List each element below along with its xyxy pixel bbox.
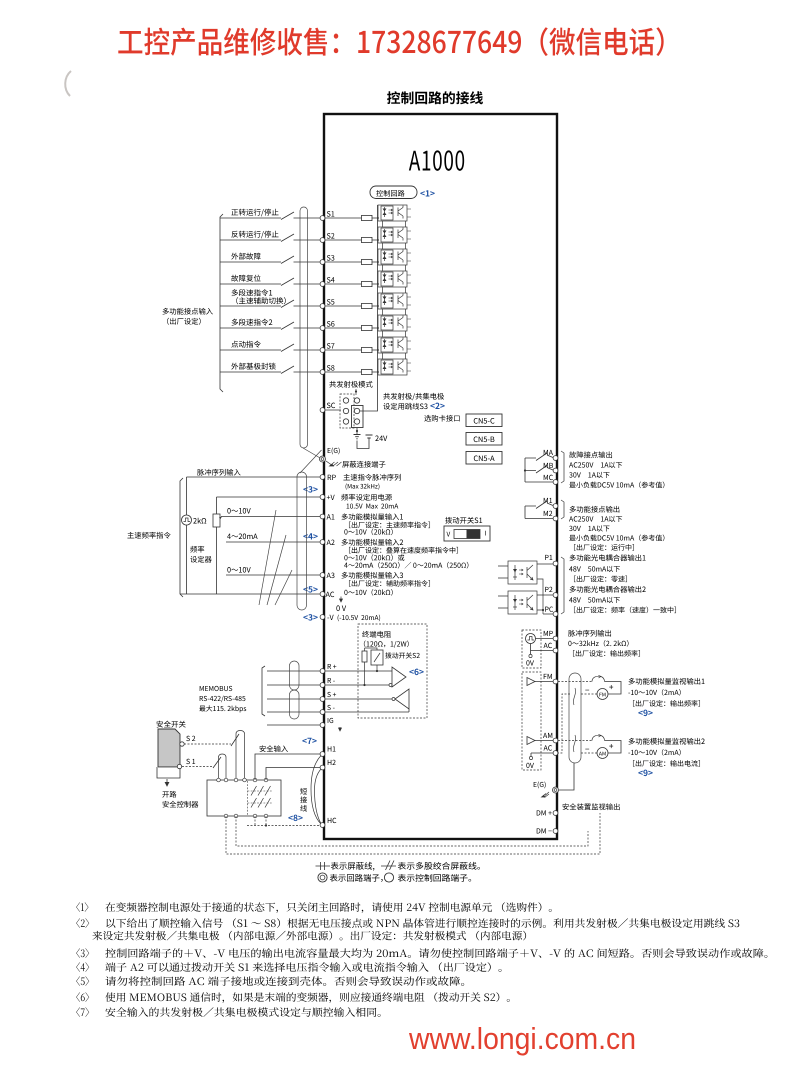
AM meter circuit	[558, 740, 592, 742]
terminal S2	[320, 238, 325, 243]
label 频率设定用电源	[341, 494, 392, 501]
earth ground under jumper	[354, 435, 361, 439]
relay box pins top	[217, 778, 221, 782]
label 设定器	[190, 556, 211, 563]
chassis ground symbol E(G) left	[326, 461, 342, 466]
terminal M1	[553, 504, 558, 509]
safety contact S2 pin	[180, 742, 184, 746]
label 多段速指令1	[232, 289, 273, 296]
switch contact S2	[281, 234, 294, 242]
terminal P1	[553, 561, 558, 566]
wire IG	[267, 724, 320, 726]
wire S1 dashed	[182, 766, 213, 768]
label (Max 32kHz)	[346, 483, 380, 489]
terminal label S3	[327, 255, 335, 260]
slide switch S1 box	[444, 526, 490, 541]
minus AM	[585, 748, 589, 751]
terminal label S2	[327, 233, 335, 238]
switch contact S7	[281, 344, 294, 352]
leader 共发射极模式 to jumper	[355, 389, 357, 395]
switch label V	[447, 532, 451, 537]
legend text 2a	[330, 874, 383, 882]
terminal E(G) left	[320, 456, 326, 462]
label 选购卡接口	[424, 415, 459, 422]
wire AC monitor	[531, 753, 553, 757]
switch contact S4	[281, 278, 294, 286]
meter label AM	[599, 752, 606, 756]
label （出厂设定）	[167, 318, 201, 325]
terminal S4	[320, 282, 325, 287]
optocoupler S3	[377, 249, 411, 271]
terminal label S -	[327, 705, 334, 710]
label （主速辅助切换）	[236, 297, 286, 304]
terminal label DM-	[537, 828, 552, 833]
label 48V 1	[569, 566, 620, 572]
optocoupler common bus	[357, 205, 378, 411]
marker <5>	[303, 586, 317, 592]
label 出厂设定 辅助频率指令	[349, 580, 430, 587]
label 2kΩ	[193, 518, 206, 524]
terminal AC monitor	[553, 751, 558, 756]
amp triangle FM	[527, 678, 535, 686]
terminal DM+	[553, 811, 558, 816]
terminal +V	[320, 495, 325, 500]
label 4~20mA 250	[344, 562, 468, 569]
label 4~20mA	[227, 534, 257, 540]
wire S-	[267, 711, 409, 713]
footnote marker 〈4〉	[76, 962, 89, 972]
wire H1	[255, 754, 320, 780]
optocoupler S8	[377, 359, 411, 375]
label CN5-C	[474, 418, 495, 424]
label 脉冲序列输入	[197, 469, 240, 476]
label 30V 1	[569, 472, 609, 478]
photocoupler output 1	[508, 561, 537, 584]
label 拨动开关S2	[385, 652, 419, 658]
minus FM	[585, 689, 589, 692]
pill text 控制回路	[376, 190, 404, 197]
dashed box analog monitor	[522, 672, 541, 770]
wire A3	[226, 574, 320, 576]
terminal label PC	[545, 607, 553, 612]
input resistor S8	[362, 369, 373, 374]
terminal S1	[320, 216, 325, 221]
label 频率	[190, 546, 204, 553]
optocoupler S7	[377, 337, 411, 359]
switch label I	[484, 531, 487, 536]
shield slashes analog	[259, 510, 292, 605]
legend circuit terminal symbol	[318, 873, 327, 882]
legend twisted shield symbol	[381, 861, 396, 871]
terminal S8	[320, 370, 325, 375]
legend control terminal symbol	[384, 873, 393, 882]
label 0~10V 20k a1	[344, 529, 392, 536]
terminal S5	[320, 304, 325, 309]
label 出厂设定 主速频率指令	[349, 522, 430, 529]
label 共发射极/共集电极	[383, 393, 444, 400]
input resistor S3	[362, 259, 373, 264]
label 出厂设定 频率一致	[574, 607, 676, 614]
bracket MEMOBUS	[262, 666, 265, 716]
terminal RP	[320, 475, 325, 480]
jumper wire H1-HC 短接线	[311, 756, 321, 825]
label 故障复位	[231, 275, 260, 282]
cable loop S1	[219, 754, 227, 780]
0V arrow below AC	[340, 597, 343, 603]
terminal label S5	[327, 299, 335, 304]
label CN5-B	[474, 436, 495, 442]
terminal label S4	[327, 277, 335, 282]
footnote marker 〈5〉	[76, 976, 89, 986]
footnote text 6	[105, 992, 509, 1003]
terminal resistor	[362, 651, 367, 662]
label 拨动开关S1	[445, 517, 482, 524]
switch contact S8	[281, 366, 294, 374]
label -10~10V 1	[628, 689, 680, 696]
wire A1	[221, 516, 320, 518]
bracket fault relay	[561, 451, 564, 483]
wire R-	[267, 684, 389, 686]
dashed monitor loop DM+ via below box	[226, 813, 600, 854]
footnote marker 〈1〉	[76, 902, 88, 912]
terminal S6	[320, 326, 325, 331]
dashed monitor loop DM- via below box	[236, 816, 588, 846]
pill 控制回路	[370, 186, 417, 199]
legend text 1a	[331, 862, 375, 871]
switch S1 contact slash	[213, 757, 221, 768]
footnote text 4	[105, 962, 501, 972]
marker <7>	[302, 738, 316, 744]
label 安全控制器	[163, 801, 199, 808]
label DC5V 2	[569, 535, 664, 542]
terminal label E(G) right	[534, 781, 546, 788]
twisted pair cable monitor	[569, 673, 581, 763]
arrow to safety controller	[165, 779, 169, 786]
terminal label AM	[543, 733, 552, 738]
label 30V 2	[569, 525, 609, 531]
label 0V fm	[526, 763, 534, 768]
24V supply symbol	[366, 435, 373, 438]
input resistor S4	[362, 281, 373, 286]
optocoupler S2	[377, 227, 411, 249]
label 终端电阻	[362, 631, 391, 638]
terminal label H1	[328, 746, 336, 751]
terminal MA	[553, 456, 558, 461]
relay box pins bottom	[224, 814, 228, 818]
terminal label A1	[327, 514, 335, 519]
wire input row S3	[220, 261, 378, 263]
wire R+	[267, 670, 392, 672]
label 正转运行/停止	[231, 209, 278, 217]
label 0~10V a1	[227, 508, 250, 514]
footnote text 3	[105, 948, 767, 958]
switch contact S5	[281, 300, 294, 308]
terminal label M1	[544, 498, 552, 503]
terminal label S8	[327, 365, 335, 370]
terminal label +V	[327, 495, 335, 500]
marker <8>	[288, 815, 302, 822]
switch contact S6	[281, 322, 294, 330]
terminal R+	[320, 669, 325, 674]
marker <2>	[430, 403, 444, 409]
label 反转运行/停止	[231, 231, 278, 239]
terminal label -V	[327, 615, 333, 620]
input resistor S5	[362, 303, 373, 308]
wire AC analog common	[180, 593, 320, 595]
terminal label A3	[327, 573, 335, 578]
terminal label A2	[327, 540, 335, 545]
photocoupler 1 wires	[498, 564, 553, 614]
label 短 vertical	[300, 788, 307, 795]
bracket multi relay	[561, 500, 564, 519]
terminal A3	[320, 573, 325, 578]
label 0~10V a3	[227, 567, 250, 573]
shield cable analog inputs	[297, 472, 307, 610]
stray pen mark top-left	[65, 71, 71, 96]
marker <3>	[303, 486, 317, 493]
label 出厂设定 运行中	[574, 544, 634, 551]
terminal IG	[320, 723, 325, 728]
optocoupler S6	[377, 315, 411, 337]
pulse source symbol MP	[526, 634, 536, 644]
terminal label SC	[327, 403, 335, 408]
terminal MP	[553, 636, 558, 641]
terminal E(G) right	[553, 787, 559, 793]
terminal label R -	[328, 678, 335, 683]
label 120ohm	[364, 641, 409, 648]
terminal H1	[320, 752, 325, 757]
relay output MA/MB/MC	[525, 455, 553, 482]
terminal label H2	[328, 760, 336, 765]
label 0~10V 20k a3	[344, 589, 392, 596]
label 脉冲序列输出	[568, 630, 611, 637]
terminal A1	[320, 514, 325, 519]
label AC250V 2	[569, 516, 622, 522]
photocoupler 2 wires	[498, 595, 553, 614]
relay output M1/M2	[525, 503, 553, 519]
footnote text 7	[105, 1007, 380, 1017]
terminal label M2	[544, 511, 553, 516]
footnote text 5	[105, 976, 464, 986]
terminal label AC	[326, 592, 335, 597]
inverter body box	[324, 114, 557, 839]
dashed box terminal resistor	[358, 624, 427, 718]
wire S+	[267, 698, 392, 700]
label 点动指令	[231, 341, 260, 348]
amp triangle AM	[527, 737, 535, 745]
terminal label S6	[327, 321, 335, 326]
wire input row S5	[220, 305, 378, 307]
terminal S+	[320, 697, 325, 702]
terminal AC pulse	[553, 648, 558, 653]
label 多功能模拟量输入3	[342, 572, 403, 579]
bracket photocoupler	[561, 557, 564, 614]
terminal label S1	[327, 211, 334, 216]
dashed box pulse monitor	[522, 630, 541, 668]
label 线 vertical	[300, 805, 307, 812]
label MEMOBUS	[200, 686, 233, 691]
footnote text 1	[106, 918, 739, 928]
label 故障接点输出	[569, 451, 612, 458]
label 模拟量监视输出1	[629, 678, 705, 685]
terminal label RP	[328, 475, 336, 480]
label 0~32kHz	[568, 640, 628, 647]
safety contact S1 pin	[177, 764, 181, 768]
legend text 2b	[398, 874, 471, 882]
terminal S3	[320, 260, 325, 265]
meter label FM	[600, 693, 606, 697]
label 光电耦合输出2	[570, 586, 646, 593]
label 屏蔽连接端子	[342, 461, 385, 468]
footnote marker 〈3〉	[76, 948, 89, 958]
label 最大115.2kbps	[199, 705, 246, 712]
label 接 vertical	[300, 796, 307, 803]
terminal label FM	[544, 674, 552, 679]
wire SC	[324, 409, 341, 411]
terminal label DM+	[537, 810, 552, 815]
footnote marker 〈7〉	[76, 1007, 89, 1017]
wire jumper to 24V supply	[357, 428, 369, 449]
terminal label AC pulse	[544, 643, 552, 648]
marker <9> a	[638, 710, 652, 717]
svg-text:www.longi.com.cn: www.longi.com.cn	[408, 1021, 636, 1056]
cable shield drain to E(G) right	[559, 763, 574, 790]
label AC250V 1	[569, 462, 622, 468]
terminal label AC monitor	[544, 745, 552, 750]
switch S2 contact slash	[231, 734, 239, 746]
wire +V	[217, 497, 321, 514]
jumper S3 block	[340, 394, 363, 428]
label 共发射极模式	[329, 381, 372, 388]
label S 2	[186, 736, 195, 741]
legend shield symbol	[316, 862, 331, 870]
switch contact S3	[281, 256, 294, 264]
terminal DM-	[553, 829, 558, 834]
terminal label P2	[545, 587, 552, 592]
footnote marker 〈6〉	[76, 992, 89, 1002]
label A1000	[409, 150, 464, 170]
optocoupler S1	[377, 205, 411, 227]
marker <1>	[420, 190, 434, 196]
label 模拟量监视输出2	[629, 738, 705, 745]
junction dots R wires	[363, 684, 365, 686]
driver triangle RS485 tx	[395, 689, 409, 709]
footnote text 2	[92, 931, 526, 941]
terminal S-	[320, 710, 325, 715]
label 出厂设定 叠算	[349, 547, 458, 554]
potentiometer 频率设定器	[213, 514, 220, 527]
terminal label IG	[328, 718, 333, 723]
label 出厂设定 零速	[574, 576, 627, 583]
input resistor S6	[362, 325, 373, 330]
input resistor S2	[362, 237, 373, 242]
marker <6>	[409, 669, 423, 676]
label 外部基极封锁	[231, 363, 275, 370]
label 0~10V 20k or	[344, 554, 404, 561]
title 控制回路的接线	[387, 91, 483, 104]
label -10.5V 20mA	[338, 615, 381, 622]
label 多段速指令2	[232, 319, 273, 326]
relay contacts inside	[248, 781, 274, 815]
driver triangle RS485 rx	[392, 667, 406, 687]
terminal AC analog	[320, 592, 325, 597]
terminal P2	[553, 593, 558, 598]
switch contact S1	[281, 212, 294, 220]
wire H2	[266, 768, 320, 781]
label 出厂设定 输出电流	[633, 760, 700, 767]
wire input row S7	[220, 349, 378, 351]
terminal H2	[320, 765, 325, 770]
plus AM	[609, 744, 613, 748]
terminal -V	[320, 615, 325, 620]
plus FM	[609, 685, 613, 689]
terminal FM	[553, 679, 558, 684]
label 10.5V Max 20mA	[347, 504, 399, 509]
wire A2	[226, 541, 320, 543]
label 安全输入	[260, 745, 288, 752]
terminal R-	[320, 683, 325, 688]
option port box CN5-B	[466, 433, 502, 446]
optocoupler S5	[377, 293, 411, 315]
label 光电耦合输出1	[570, 554, 646, 561]
terminal M2	[553, 516, 558, 521]
wire HC dashed	[247, 816, 320, 826]
terminal label MB	[544, 463, 553, 468]
terminal label MA	[544, 450, 553, 455]
marker <4>	[303, 533, 317, 539]
label 48V 2	[569, 597, 620, 603]
safety controller relay box	[207, 780, 281, 816]
input resistor S7	[362, 347, 373, 352]
label 多功能模拟量输入2	[342, 539, 404, 546]
label DC5V 1	[569, 482, 664, 489]
footnote marker 〈2〉	[76, 918, 89, 928]
shield cable memobus lower	[290, 690, 300, 719]
terminal MC	[553, 480, 558, 485]
wire input row S2	[220, 239, 378, 241]
IG ground arrow	[339, 727, 342, 731]
label 主速频率指令	[127, 532, 170, 539]
label 多功能接点输出	[570, 506, 620, 513]
cable loop S2	[236, 731, 245, 781]
wire input row S4	[220, 283, 378, 285]
label 主速指令脉冲序列	[343, 474, 400, 481]
terminal A2	[320, 540, 325, 545]
shield drain wires to E(G)	[300, 448, 322, 473]
label 多功能接点输入	[163, 308, 213, 315]
photocoupler output 2	[508, 591, 537, 614]
label CN5-A	[474, 455, 495, 461]
chassis ground symbol right	[542, 792, 550, 798]
label S 1	[186, 759, 195, 764]
label 出厂设定 输出频率 mp	[573, 650, 640, 657]
marker <3> b	[303, 614, 317, 621]
terminal AM	[553, 738, 558, 743]
option port box CN5-C	[466, 414, 502, 427]
label 0V mp	[526, 660, 534, 665]
wire input row S8	[220, 371, 378, 373]
wire RP	[187, 476, 321, 478]
input resistor S1	[362, 215, 373, 220]
label 多功能模拟量输入1	[342, 513, 403, 520]
left bracket 多功能接点输入 group	[220, 214, 223, 392]
label 24V	[375, 436, 387, 441]
label RS-422/RS-485	[200, 696, 246, 703]
red header 工控产品维修收售	[118, 27, 663, 56]
shield cable memobus upper	[290, 661, 300, 690]
option port box CN5-A	[466, 452, 502, 465]
terminal HC	[320, 823, 325, 828]
